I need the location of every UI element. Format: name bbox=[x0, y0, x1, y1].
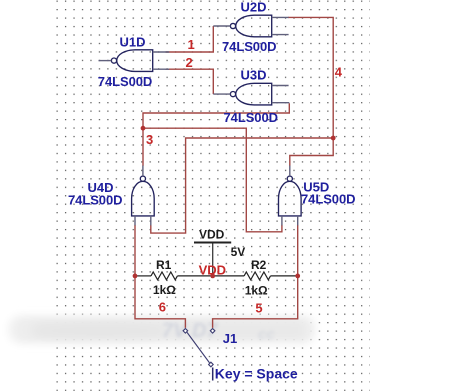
svg-text:R2: R2 bbox=[251, 258, 267, 272]
svg-text:1: 1 bbox=[188, 37, 195, 52]
svg-text:VDD: VDD bbox=[199, 263, 226, 278]
svg-text:74LS00D: 74LS00D bbox=[68, 192, 123, 207]
svg-text:U1D: U1D bbox=[120, 34, 146, 49]
svg-text:J1: J1 bbox=[223, 331, 237, 346]
svg-text:5: 5 bbox=[255, 301, 262, 316]
svg-text:4: 4 bbox=[335, 65, 343, 80]
svg-text:3: 3 bbox=[146, 132, 153, 147]
svg-text:U2D: U2D bbox=[241, 0, 267, 15]
svg-text:cc: cc bbox=[258, 326, 275, 343]
svg-text:5V: 5V bbox=[231, 245, 246, 259]
svg-text:R1: R1 bbox=[156, 258, 172, 272]
svg-text:1kΩ: 1kΩ bbox=[153, 283, 176, 297]
svg-text:74LS00D: 74LS00D bbox=[224, 110, 279, 125]
svg-text:74LS00D: 74LS00D bbox=[98, 74, 153, 89]
svg-text:2: 2 bbox=[186, 55, 193, 70]
svg-text:74LS00D: 74LS00D bbox=[222, 39, 277, 54]
svg-text:U3D: U3D bbox=[241, 67, 267, 82]
svg-text:Key = Space: Key = Space bbox=[215, 366, 298, 382]
svg-text:VDD: VDD bbox=[199, 227, 225, 241]
svg-text:6: 6 bbox=[159, 299, 166, 314]
svg-text:74LS00D: 74LS00D bbox=[301, 192, 356, 207]
svg-text:1kΩ: 1kΩ bbox=[245, 283, 268, 297]
